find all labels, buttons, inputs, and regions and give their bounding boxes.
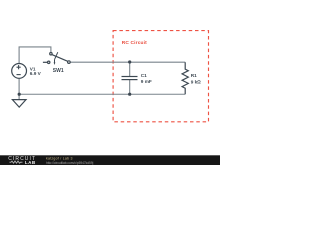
capacitor C1 bottom lead — [129, 80, 131, 95]
switch arrowhead — [54, 62, 56, 65]
svg-text:9 kΩ: 9 kΩ — [191, 80, 202, 85]
wire stub left throw — [43, 61, 48, 63]
junction dot V1/ground — [18, 93, 21, 96]
wire switch to RC box (top net) — [70, 61, 185, 63]
svg-text:6.9 V: 6.9 V — [30, 71, 42, 76]
junction dot bottom of C1 — [128, 93, 131, 96]
junction dot top of C1 — [128, 60, 131, 63]
ground — [12, 100, 26, 108]
capacitor C1 plates — [122, 76, 138, 78]
component labels — [30, 67, 201, 85]
wire bottom net — [19, 93, 185, 95]
resistor R1 — [182, 62, 188, 94]
footer bar — [0, 155, 220, 165]
voltage source V1 — [12, 64, 27, 79]
CircuitLab logo: resistor zigzag — [10, 161, 23, 163]
RC Circuit enclosure box — [113, 31, 208, 122]
svg-text:RC Circuit: RC Circuit — [122, 40, 147, 46]
svg-text:9 mF: 9 mF — [141, 79, 152, 84]
svg-text:katzgof / Lab 3: katzgof / Lab 3 — [46, 156, 73, 160]
svg-text:R1: R1 — [191, 73, 197, 78]
svg-text:htto://circuitlab.com/c/p5947k: htto://circuitlab.com/c/p5947kd59j — [46, 161, 94, 165]
svg-text:SW1: SW1 — [53, 68, 64, 74]
svg-text:LAB: LAB — [25, 160, 36, 165]
wire V1 bottom to ground node — [18, 78, 20, 99]
wire V1 top to switch corner — [19, 47, 51, 64]
svg-text:C1: C1 — [141, 73, 147, 78]
switch SW1 — [50, 53, 52, 55]
capacitor C1 top lead — [129, 62, 131, 77]
